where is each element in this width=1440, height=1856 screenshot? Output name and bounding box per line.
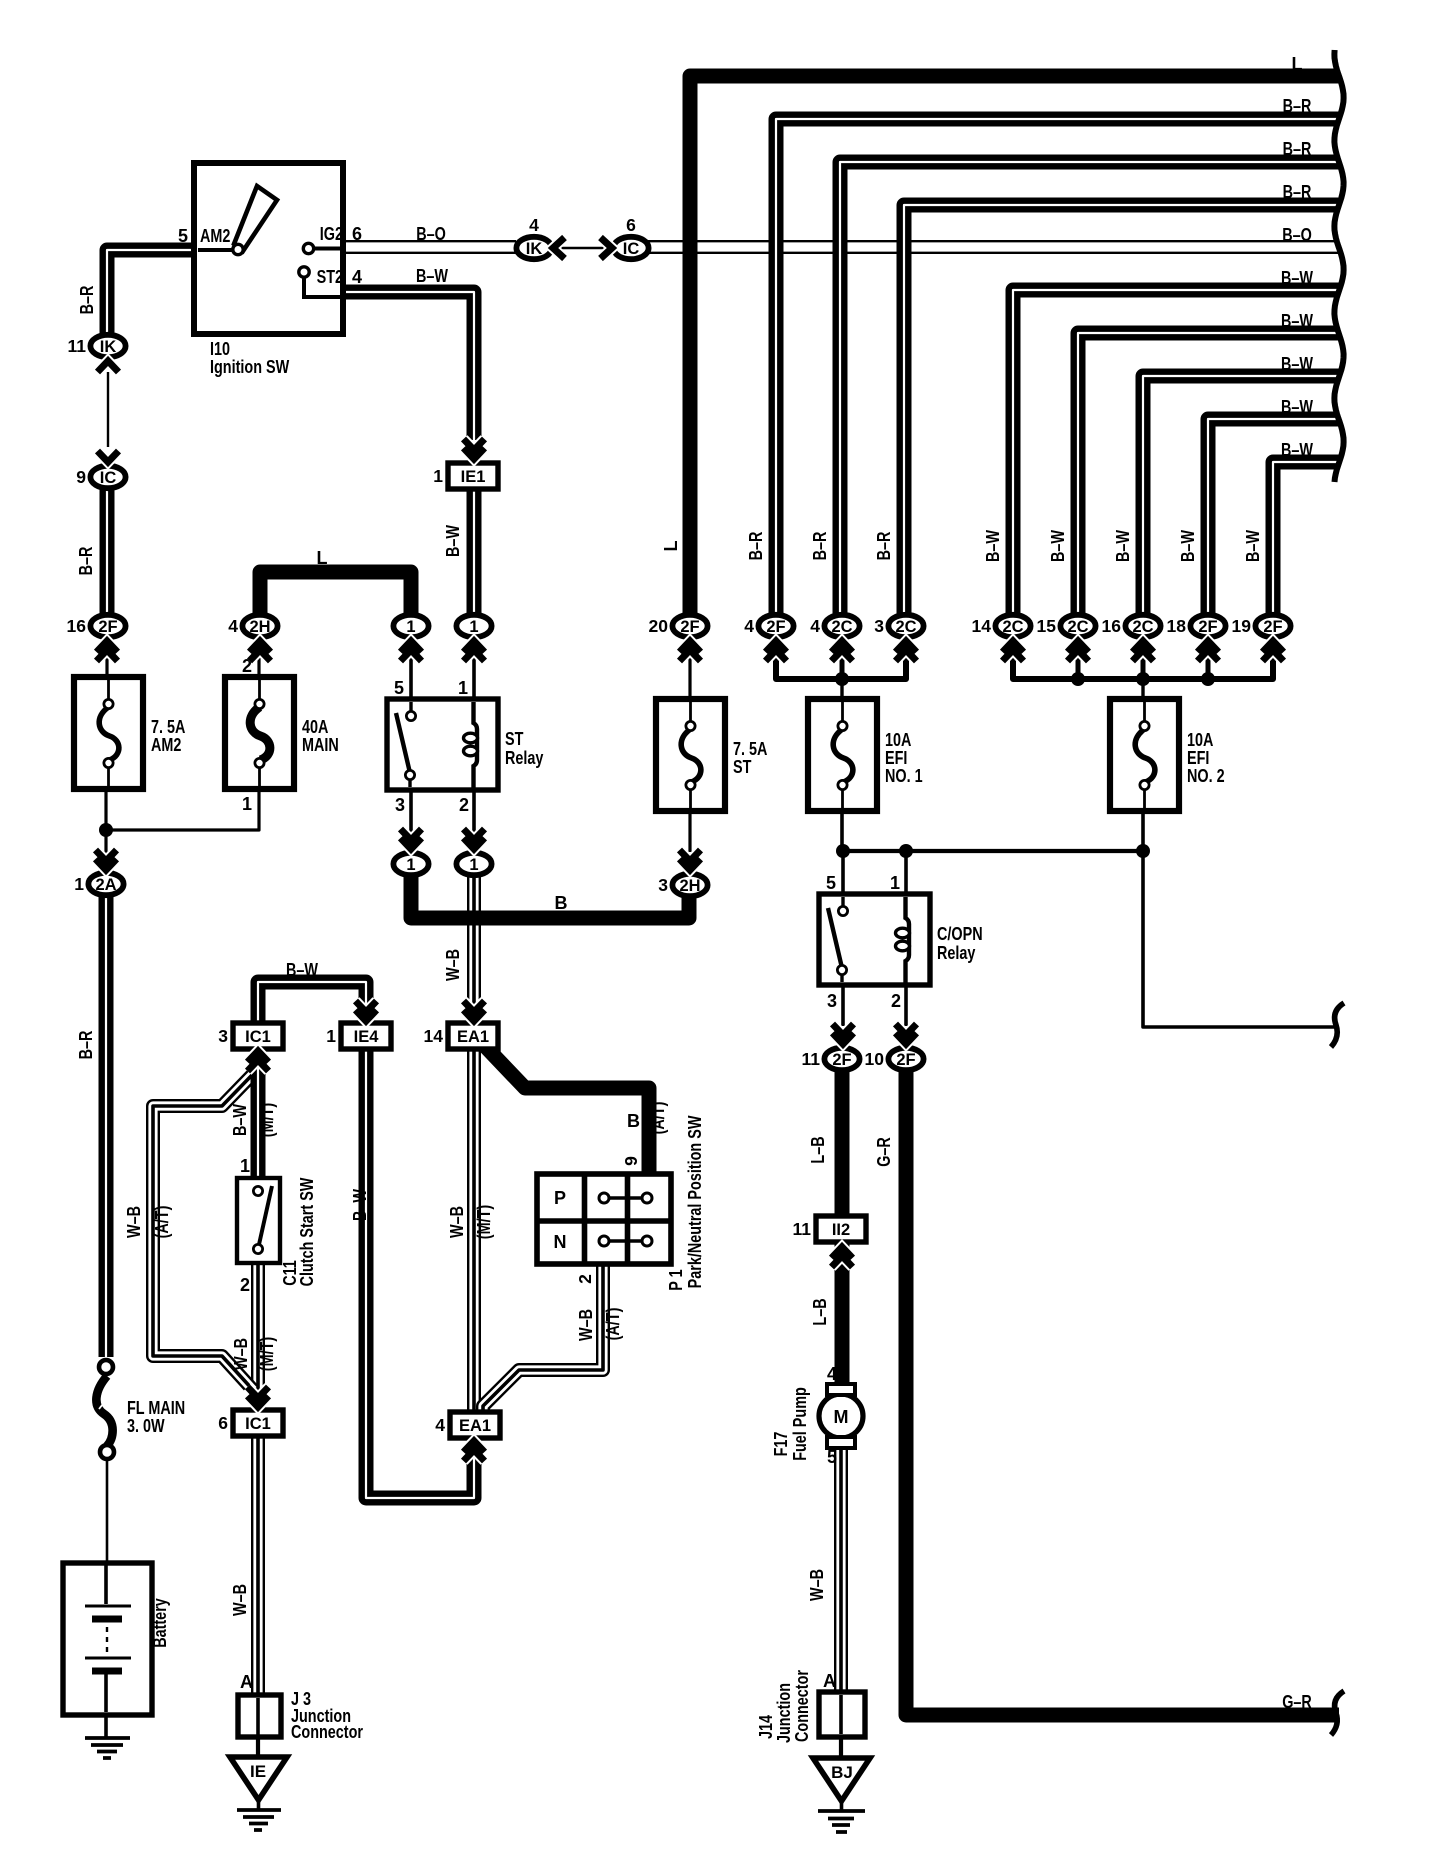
svg-text:IE1: IE1: [461, 468, 486, 486]
svg-text:EA1: EA1: [457, 1028, 489, 1046]
svg-text:2F: 2F: [98, 618, 117, 636]
wire B-W to right edge row 9: [1208, 419, 1339, 616]
wire B-W to right edge row 8: [1143, 376, 1339, 616]
svg-text:BJ: BJ: [831, 1763, 853, 1782]
svg-text:B–O: B–O: [1282, 225, 1312, 245]
svg-text:6: 6: [352, 224, 362, 244]
bus wire to 2F-4 2C-4 2C-3: [776, 655, 906, 679]
svg-text:10: 10: [865, 1049, 885, 1069]
svg-text:1: 1: [433, 466, 443, 486]
arrow up into connector row at x=1273: [1263, 641, 1284, 661]
svg-text:Ignition SW: Ignition SW: [210, 357, 289, 377]
svg-text:Clutch Start SW: Clutch Start SW: [297, 1178, 317, 1287]
svg-text:11: 11: [68, 336, 87, 356]
arrow down into 2F-10: [896, 1024, 917, 1044]
connector 2A pin 1: [74, 873, 123, 895]
svg-text:IC: IC: [623, 240, 640, 258]
connector 2F pin 18: [1167, 615, 1226, 637]
svg-text:EA1: EA1: [459, 1417, 491, 1435]
arrow up into connector row at x=1208: [1198, 641, 1219, 661]
svg-text:FL MAIN: FL MAIN: [127, 1398, 185, 1418]
wire ST relay pin 2 down: [472, 788, 476, 852]
wire to C/OPN relay pin 1: [904, 851, 908, 896]
svg-text:II2: II2: [832, 1221, 850, 1239]
svg-text:3: 3: [874, 616, 884, 636]
svg-text:N: N: [554, 1232, 567, 1252]
svg-text:3: 3: [395, 795, 405, 815]
wire W-B from ST relay pin 2 to EA1 pin 14: [467, 877, 481, 1005]
svg-text:40A: 40A: [302, 717, 328, 737]
svg-text:4: 4: [529, 215, 539, 235]
svg-text:11: 11: [802, 1049, 821, 1069]
svg-text:3: 3: [658, 875, 668, 895]
wire L from connector 2F-20 to right edge: [690, 76, 1339, 616]
fuse 7.5A AM2: [74, 677, 143, 789]
connector IE1 pin 1: [433, 463, 498, 489]
svg-text:4: 4: [352, 267, 362, 287]
wire W-B IC1 pin 6 to J3: [251, 1433, 265, 1695]
svg-text:MAIN: MAIN: [302, 735, 339, 755]
svg-text:3: 3: [218, 1026, 228, 1046]
svg-text:9: 9: [76, 467, 86, 487]
wire B-W IE1 to ST relay pin 1 connector: [467, 489, 482, 616]
svg-text:2: 2: [575, 1274, 595, 1284]
bus stub 2C-16: [1141, 655, 1146, 683]
svg-text:2: 2: [240, 1275, 250, 1295]
svg-text:4: 4: [435, 1415, 445, 1435]
svg-text:14: 14: [972, 616, 992, 636]
wire fuse ST to connector 2H-3: [688, 809, 691, 852]
wire 2F-16 to fuse AM2: [105, 640, 108, 680]
wire B-O from IG2 to connector IK: [345, 240, 516, 254]
svg-text:(A/T): (A/T): [603, 1308, 623, 1341]
svg-text:1: 1: [890, 873, 900, 893]
svg-text:ST2: ST2: [317, 267, 343, 287]
connector IK pin 4: [516, 215, 551, 259]
arrow down into IE1: [464, 439, 485, 459]
arrow up into connector row at x=1143: [1133, 641, 1154, 661]
svg-text:4: 4: [827, 1364, 837, 1384]
wire W-B (M/T) EA1 pin 14 to EA1 pin 4: [467, 1046, 481, 1414]
svg-text:(A/T): (A/T): [648, 1102, 668, 1135]
bus stub 2C-15: [1076, 655, 1081, 679]
svg-text:(M/T): (M/T): [474, 1205, 494, 1239]
relay C/OPN: [819, 894, 930, 985]
wire B-R connector IC-9 to 2F-16: [100, 489, 115, 616]
svg-text:1: 1: [406, 856, 415, 874]
wire bus to fuse EFI NO.1: [840, 683, 843, 702]
svg-text:NO. 1: NO. 1: [885, 766, 923, 786]
svg-text:10A: 10A: [885, 730, 911, 750]
wire B-W IC1 pin 3 to IE4: [258, 982, 366, 1026]
svg-text:W–B: W–B: [576, 1309, 596, 1341]
wire 2H-4 to fuse MAIN: [257, 640, 260, 680]
connector EA1 pin 4: [435, 1412, 500, 1438]
svg-text:G–R: G–R: [1282, 1692, 1312, 1712]
svg-text:Junction: Junction: [774, 1683, 794, 1743]
wire C/OPN relay pin 2 down: [904, 983, 908, 1026]
wire L-B connector 2F-11 to II2: [835, 1072, 850, 1219]
fuse 40A MAIN: [225, 677, 294, 789]
svg-text:10A: 10A: [1187, 730, 1213, 750]
svg-text:B–W: B–W: [350, 1189, 370, 1221]
wire B-W to right edge row 7: [1078, 333, 1339, 616]
svg-text:B–R: B–R: [76, 547, 96, 576]
wire B-R connector 2A-1 to fusible link FL MAIN: [99, 896, 114, 1357]
svg-text:B–W: B–W: [1281, 311, 1313, 331]
fuse 7.5A ST: [656, 699, 725, 811]
svg-text:W–B: W–B: [807, 1569, 827, 1601]
svg-text:B–W: B–W: [230, 1104, 250, 1136]
svg-text:I10: I10: [210, 339, 230, 359]
wire between connectors IK-11 and IC-9: [107, 372, 109, 447]
svg-text:1: 1: [469, 856, 478, 874]
connector II2 pin 11: [793, 1216, 867, 1242]
svg-text:M: M: [834, 1407, 849, 1427]
svg-text:ST: ST: [733, 757, 751, 777]
connector 1 ST relay pin 3: [393, 853, 428, 875]
connector 1 ST relay pin 2: [456, 853, 491, 875]
svg-text:ST: ST: [505, 729, 523, 749]
svg-text:B–W: B–W: [1281, 440, 1313, 460]
connector 2H pin 4: [228, 615, 277, 637]
wire 2F-20 to fuse ST: [688, 640, 691, 701]
junction at 2C-16 bus: [1136, 672, 1150, 686]
svg-text:14: 14: [424, 1026, 444, 1046]
junction below fuse EFI NO.1: [836, 844, 850, 858]
svg-text:Connector: Connector: [792, 1670, 812, 1742]
svg-text:G–R: G–R: [874, 1137, 894, 1167]
wire to ST relay pin 1: [472, 640, 476, 701]
wire B-W (M/T) IC1 pin 3 to clutch start switch: [251, 1046, 266, 1178]
ignition switch I10 box: [194, 163, 343, 334]
park/neutral position switch P1: [537, 1174, 671, 1264]
connector 2C pin 16: [1102, 615, 1161, 637]
ground triangle IE: [230, 1757, 287, 1800]
arrow right into IC-6: [601, 238, 613, 259]
svg-text:3: 3: [827, 991, 837, 1011]
bus stub 2F-18: [1206, 655, 1211, 679]
connector 2F pin 11: [802, 1048, 860, 1070]
wire B-W ignition ST2 to IE1: [342, 292, 474, 440]
wire fuse AM2 to connector 2A-1: [104, 786, 107, 855]
svg-text:(M/T): (M/T): [257, 1103, 277, 1137]
connector EA1 pin 14: [424, 1023, 498, 1049]
svg-text:EFI: EFI: [1187, 748, 1209, 768]
wire B-R ignition AM2 to connector IK-11: [107, 250, 192, 334]
clutch start switch C11: [237, 1178, 280, 1263]
svg-text:B: B: [627, 1111, 640, 1131]
svg-text:1: 1: [240, 1156, 250, 1176]
squiggle wire end EFI junction: [1331, 1003, 1344, 1047]
connector 2F pin 20: [649, 615, 708, 637]
connector IC pin 9: [76, 466, 125, 488]
svg-text:B–W: B–W: [416, 266, 448, 286]
connector 2C pin 15: [1037, 615, 1096, 637]
arrow up into connector row at x=906: [896, 641, 917, 661]
arrow up into IC1-3: [248, 1051, 269, 1071]
svg-text:18: 18: [1167, 616, 1187, 636]
svg-text:2F: 2F: [896, 1051, 915, 1069]
arrow down into 2H-3: [680, 850, 701, 870]
svg-text:5: 5: [394, 678, 404, 698]
wire to ST relay pin 5: [409, 640, 413, 701]
svg-text:B–R: B–R: [1283, 139, 1312, 159]
svg-text:W–B: W–B: [231, 1338, 251, 1370]
connector 2C pin 4: [810, 615, 859, 637]
connector 2F pin 16: [67, 615, 126, 637]
wire L-B II2 to fuel pump: [835, 1242, 850, 1390]
arrow left into IK-4: [553, 238, 565, 259]
arrow up into II2: [832, 1247, 853, 1267]
svg-text:5: 5: [826, 873, 836, 893]
svg-text:1: 1: [242, 794, 252, 814]
fuse 10A EFI NO.1: [808, 699, 877, 811]
wire B from ST relay pin 3 to connector 2H-3: [411, 876, 689, 918]
relay ST: [387, 699, 498, 790]
wire ST relay pin 3 down: [409, 788, 413, 852]
wire B-W IE4 to EA1 pin 4: [366, 1046, 474, 1498]
connector IK pin 11: [68, 335, 126, 357]
svg-text:1: 1: [326, 1026, 336, 1046]
junction connector J14: [819, 1692, 865, 1737]
torn-edge squiggle right margin top: [1334, 50, 1343, 482]
svg-text:Connector: Connector: [291, 1722, 363, 1742]
svg-text:B–W: B–W: [443, 525, 463, 557]
svg-text:4: 4: [810, 616, 820, 636]
svg-text:3. 0W: 3. 0W: [127, 1416, 165, 1436]
svg-text:B–W: B–W: [983, 530, 1003, 562]
wire C/OPN relay pin 3 down: [841, 983, 845, 1026]
svg-text:Battery: Battery: [150, 1598, 170, 1648]
wire fusible link to battery: [106, 1459, 109, 1565]
svg-text:C/OPN: C/OPN: [937, 924, 983, 944]
bus stub 2C-4: [840, 655, 845, 683]
svg-text:IK: IK: [526, 240, 543, 258]
svg-text:9: 9: [621, 1156, 641, 1166]
svg-text:B: B: [555, 893, 568, 913]
connector 2H pin 3: [658, 874, 707, 896]
wire to C/OPN relay pin 5: [841, 851, 845, 896]
squiggle wire end G-R: [1331, 1691, 1344, 1735]
arrow down into 2A-1: [96, 850, 117, 870]
wire battery to ground: [104, 1712, 108, 1739]
arrow down into IE4: [356, 1001, 377, 1021]
wire B-O from connector IC to right edge: [648, 240, 1339, 254]
arrow up into EA1-4: [464, 1441, 485, 1461]
arrow down into IC1-6: [248, 1387, 269, 1407]
wire W-B (M/T) clutch switch to IC1 pin 6: [251, 1262, 265, 1414]
connector 2C pin 3: [874, 615, 923, 637]
svg-text:W–B: W–B: [443, 949, 463, 981]
svg-text:W–B: W–B: [124, 1206, 144, 1238]
svg-text:5: 5: [827, 1447, 837, 1467]
svg-text:L–B: L–B: [808, 1136, 828, 1163]
svg-text:(A/T): (A/T): [152, 1206, 172, 1239]
connector 2F pin 19: [1232, 615, 1291, 637]
svg-text:B–W: B–W: [1281, 268, 1313, 288]
svg-text:IE4: IE4: [354, 1028, 380, 1046]
svg-text:20: 20: [649, 616, 669, 636]
svg-text:IC1: IC1: [245, 1415, 271, 1433]
svg-text:B–W: B–W: [1243, 530, 1263, 562]
connector 2C pin 14: [972, 615, 1031, 637]
svg-text:IE: IE: [250, 1762, 266, 1781]
fuel pump F17 motor: [819, 1384, 863, 1448]
svg-text:B–W: B–W: [1178, 530, 1198, 562]
svg-text:19: 19: [1232, 616, 1252, 636]
ignition ST2 contact lead: [304, 278, 342, 297]
arrow up into connector row at x=776: [766, 641, 787, 661]
wire bus to fuse EFI NO.2: [1141, 683, 1144, 702]
svg-text:A: A: [823, 1671, 836, 1691]
wire J3 to ground triangle IE: [256, 1695, 260, 1757]
arrow up into connector row at x=842: [832, 641, 853, 661]
wire between connectors IK-4 and IC-6: [553, 247, 612, 249]
svg-text:2F: 2F: [832, 1051, 851, 1069]
arrow up into connector row at x=1013: [1003, 641, 1024, 661]
svg-text:NO. 2: NO. 2: [1187, 766, 1225, 786]
arrow down into connector 1 from ST relay pin 2: [464, 829, 485, 849]
svg-text:2: 2: [459, 795, 469, 815]
svg-text:B–R: B–R: [746, 532, 766, 561]
wire L connector 2H-4 to ST relay pin 5 connector: [260, 572, 411, 616]
ground below battery: [85, 1738, 130, 1758]
svg-text:6: 6: [218, 1413, 228, 1433]
junction at EFI NO.1 bus: [835, 672, 849, 686]
fusible link FL MAIN 3.0W: [96, 1360, 114, 1459]
wire fuse MAIN to junction: [106, 786, 259, 830]
connector IE4 pin 1: [326, 1023, 391, 1049]
arrow down into 2F-11: [833, 1024, 854, 1044]
svg-text:L: L: [1292, 54, 1303, 74]
connector IC pin 6: [613, 215, 648, 259]
wire W-B (A/T) from P1 pin 2 to EA1 pin 4: [483, 1264, 603, 1413]
arrow down into IC-9: [98, 451, 119, 462]
svg-text:7. 5A: 7. 5A: [733, 739, 767, 759]
svg-text:6: 6: [626, 215, 636, 235]
arrow up into connector row at x=1078: [1068, 641, 1089, 661]
junction connector J3: [238, 1695, 281, 1737]
svg-text:EFI: EFI: [885, 748, 907, 768]
svg-text:B–W: B–W: [1113, 530, 1133, 562]
connector 2F pin 10: [865, 1048, 924, 1070]
arrow up into connector row at x=411: [401, 641, 422, 661]
arrow down into connector 1 from ST relay pin 3: [401, 829, 422, 849]
svg-text:B–W: B–W: [1281, 397, 1313, 417]
svg-text:A: A: [240, 1672, 253, 1692]
svg-text:5: 5: [178, 226, 188, 246]
svg-text:Fuel Pump: Fuel Pump: [790, 1387, 810, 1461]
wire B-W to right edge row 10: [1273, 462, 1339, 616]
svg-text:L–B: L–B: [810, 1298, 830, 1325]
svg-text:B–W: B–W: [1281, 354, 1313, 374]
svg-text:IC: IC: [100, 469, 117, 487]
arrow up into connector row at x=690: [680, 641, 701, 661]
svg-text:2A: 2A: [95, 876, 116, 894]
connector IC1 pin 6: [218, 1410, 283, 1436]
ignition AM2 contact lead: [198, 248, 233, 252]
svg-text:B–R: B–R: [810, 532, 830, 561]
junction at 2F-18 bus: [1201, 672, 1215, 686]
svg-text:B–O: B–O: [416, 224, 446, 244]
svg-text:2H: 2H: [679, 877, 700, 895]
svg-text:AM2: AM2: [151, 735, 181, 755]
arrow down into EA1-14: [464, 1001, 485, 1021]
svg-text:B–R: B–R: [1283, 96, 1312, 116]
ground triangle BJ: [813, 1758, 870, 1801]
wire fuse EFI NO.1 down: [840, 809, 844, 851]
svg-text:Relay: Relay: [505, 748, 543, 768]
ignition IG2 contact lead: [314, 247, 342, 251]
connector 1 ST relay pin 5: [393, 615, 428, 637]
junction to C/OPN relay pin 1: [899, 844, 913, 858]
svg-text:(M/T): (M/T): [257, 1337, 277, 1371]
svg-text:B–W: B–W: [1048, 530, 1068, 562]
wire B-R to right edge row 4: [904, 205, 1339, 616]
junction below fuses AM2/MAIN: [99, 823, 113, 837]
svg-text:P: P: [554, 1188, 566, 1208]
svg-text:P 1: P 1: [666, 1269, 686, 1290]
wire B-R to right edge row 2: [776, 119, 1339, 616]
arrow up into connector row at x=260: [250, 641, 271, 661]
svg-text:4: 4: [228, 616, 238, 636]
svg-text:16: 16: [67, 616, 87, 636]
svg-text:15: 15: [1037, 616, 1057, 636]
connector 1 ST relay pin 1: [456, 615, 491, 637]
svg-text:7. 5A: 7. 5A: [151, 717, 185, 737]
svg-text:W–B: W–B: [447, 1206, 467, 1238]
wire W-B (A/T) bypass around clutch start switch: [153, 1074, 253, 1390]
wire junction line below EFI fuses: [842, 849, 1143, 853]
svg-text:1: 1: [458, 678, 468, 698]
svg-text:Relay: Relay: [937, 943, 975, 963]
svg-text:F17: F17: [771, 1432, 791, 1457]
svg-text:B–R: B–R: [76, 1031, 96, 1060]
svg-text:B–R: B–R: [77, 286, 97, 315]
svg-text:AM2: AM2: [200, 226, 230, 246]
svg-text:Park/Neutral Position SW: Park/Neutral Position SW: [685, 1116, 705, 1289]
wire B-W to right edge row 6: [1013, 290, 1339, 616]
wire from EFI NO.2 junction to right edge: [1143, 851, 1339, 1027]
svg-text:L: L: [661, 541, 681, 552]
bus wire to 2C-14 to 2F-19: [1013, 655, 1273, 679]
svg-text:L: L: [317, 548, 328, 568]
connector 2F pin 4: [744, 615, 793, 637]
svg-text:B–W: B–W: [286, 960, 318, 980]
svg-text:4: 4: [744, 616, 754, 636]
arrow up into connector row at x=474: [464, 641, 485, 661]
svg-text:W–B: W–B: [230, 1584, 250, 1616]
wire B (A/T) EA1 pin 14 to P1 pin 9: [483, 1044, 649, 1176]
wire B-R to right edge row 3: [840, 162, 1339, 616]
junction at 2C-15 bus: [1071, 672, 1085, 686]
svg-text:B–R: B–R: [874, 532, 894, 561]
svg-text:2: 2: [891, 991, 901, 1011]
arrow up into IK-11: [98, 361, 119, 372]
fuse 10A EFI NO.2: [1110, 699, 1179, 811]
svg-text:16: 16: [1102, 616, 1122, 636]
junction below fuse EFI NO.2: [1136, 844, 1150, 858]
connector IC1 pin 3: [218, 1023, 283, 1049]
battery: [63, 1563, 152, 1715]
wire fuse EFI NO.2 down: [1141, 809, 1145, 851]
svg-text:11: 11: [793, 1219, 812, 1239]
wire G-R connector 2F-10 to right edge: [906, 1072, 1339, 1715]
svg-text:J14: J14: [756, 1715, 776, 1739]
svg-text:IG2: IG2: [320, 224, 343, 244]
wire W-B fuel pump to J14: [834, 1448, 848, 1692]
